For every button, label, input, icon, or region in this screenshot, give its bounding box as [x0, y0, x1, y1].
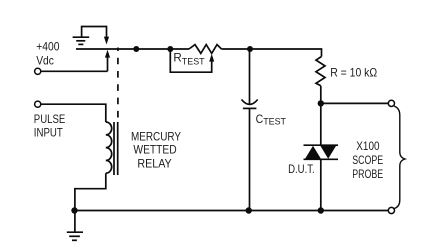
- resistor RTEST (zigzag): [189, 45, 222, 54]
- label X100 SCOPE PROBE: [352, 139, 383, 181]
- svg-text:TEST: TEST: [263, 117, 286, 128]
- label PULSE INPUT: [34, 112, 66, 140]
- svg-text:TEST: TEST: [182, 57, 205, 68]
- junction node dot 1: [133, 46, 139, 52]
- ground symbol (top, switch NC contact): [73, 37, 90, 44]
- RTEST wiper arm (rheostat connection): [170, 49, 214, 72]
- scope probe brace: [394, 106, 405, 208]
- svg-text:X100: X100: [356, 139, 379, 153]
- label D.U.T.: [288, 162, 315, 176]
- wire ground to contact arm: [82, 27, 107, 38]
- wire pulse input to relay coil: [41, 104, 106, 122]
- junction node dot 2 (RTEST wiper tap): [167, 46, 173, 52]
- label +400 Vdc: [36, 40, 60, 68]
- svg-text:SCOPE: SCOPE: [352, 153, 383, 167]
- label R = 10 kOhm: [330, 66, 377, 80]
- svg-text:+400: +400: [36, 40, 60, 54]
- switch contact arm (+400 side, arrow up): [105, 50, 110, 72]
- ground symbol (bottom): [67, 213, 83, 240]
- svg-text:Vdc: Vdc: [36, 54, 54, 68]
- resistor R = 10 k (vertical zigzag): [316, 57, 325, 104]
- terminal pulse input: [35, 101, 41, 107]
- svg-text:R = 10 kΩ: R = 10 kΩ: [330, 66, 377, 80]
- terminal probe ground: [388, 207, 394, 213]
- label CTEST: [256, 112, 287, 128]
- junction node dot 3 (CTEST top): [247, 46, 253, 52]
- label RTEST: [173, 50, 204, 67]
- wire switch common (top rail): [76, 48, 189, 50]
- wire node to probe tip terminal: [321, 102, 389, 104]
- label MERCURY WETTED RELAY: [131, 129, 181, 170]
- wire +400 Vdc lead: [41, 70, 108, 72]
- DUT bidirectional device (diac): [304, 145, 339, 159]
- wire relay coil return to ground rail: [75, 173, 106, 210]
- terminal +400 Vdc: [35, 68, 41, 74]
- switch contact arm (ground side, arrow down): [104, 37, 109, 45]
- svg-text:D.U.T.: D.U.T.: [288, 162, 315, 176]
- capacitor CTEST: [242, 49, 258, 211]
- svg-text:MERCURY: MERCURY: [131, 129, 181, 143]
- junction node dot 6 (CTEST bottom): [246, 207, 252, 213]
- wire RTEST to CTEST node and corner down to R: [222, 49, 322, 57]
- junction node dot 4 (DUT / probe tip node): [318, 100, 324, 106]
- terminal probe tip: [388, 100, 394, 106]
- svg-text:INPUT: INPUT: [34, 126, 64, 140]
- mechanical link (dashed): [117, 48, 119, 123]
- ground rail (bottom): [75, 210, 389, 212]
- svg-text:RELAY: RELAY: [137, 156, 171, 170]
- wire DUT to ground rail: [320, 159, 322, 210]
- junction node dot 5 (rail left): [71, 207, 77, 213]
- svg-text:PULSE: PULSE: [34, 112, 66, 126]
- relay core: [114, 122, 118, 175]
- wire node to DUT: [320, 103, 322, 145]
- relay coil: [106, 122, 112, 173]
- svg-text:R: R: [173, 50, 182, 64]
- svg-text:PROBE: PROBE: [352, 167, 383, 181]
- svg-text:WETTED: WETTED: [133, 143, 177, 157]
- junction node dot 7 (DUT bottom): [318, 207, 324, 213]
